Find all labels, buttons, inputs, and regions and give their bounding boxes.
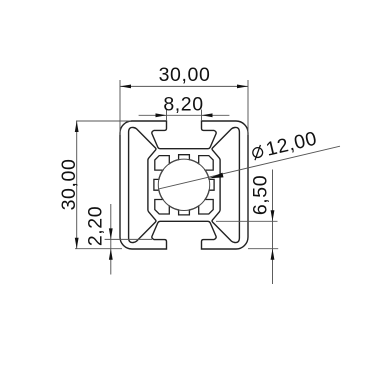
right side cavity	[212, 127, 239, 242]
dimension line 2,20	[110, 204, 112, 275]
profile outer contour with T-slots top and bottom	[120, 121, 248, 249]
extension lines dim 30,00 top	[120, 80, 248, 135]
leader line diameter 12,00	[159, 146, 340, 189]
svg-text:30,00: 30,00	[58, 159, 80, 211]
extension line dim 2,20 (slot lip)	[105, 238, 152, 240]
dimension line 8,20	[139, 114, 230, 116]
svg-text:30,00: 30,00	[159, 64, 211, 86]
dimension line 30,00 top	[120, 85, 248, 87]
svg-text:2,20: 2,20	[85, 206, 107, 246]
svg-text:6,50: 6,50	[250, 175, 272, 215]
dimension line 6,50	[272, 170, 274, 285]
extension lines dim 8,20	[167, 110, 202, 122]
svg-text:8,20: 8,20	[163, 93, 203, 115]
extension lines dim 6,50	[216, 221, 278, 248]
dimension line 30,00 left	[76, 121, 78, 249]
extension lines dim 30,00 left	[75, 121, 131, 249]
core screw-channel cavity	[154, 155, 214, 215]
core bore circle diameter 12	[158, 159, 209, 210]
dimension text (diameter symbol) 12,00	[250, 127, 319, 164]
left side cavity	[129, 127, 156, 242]
